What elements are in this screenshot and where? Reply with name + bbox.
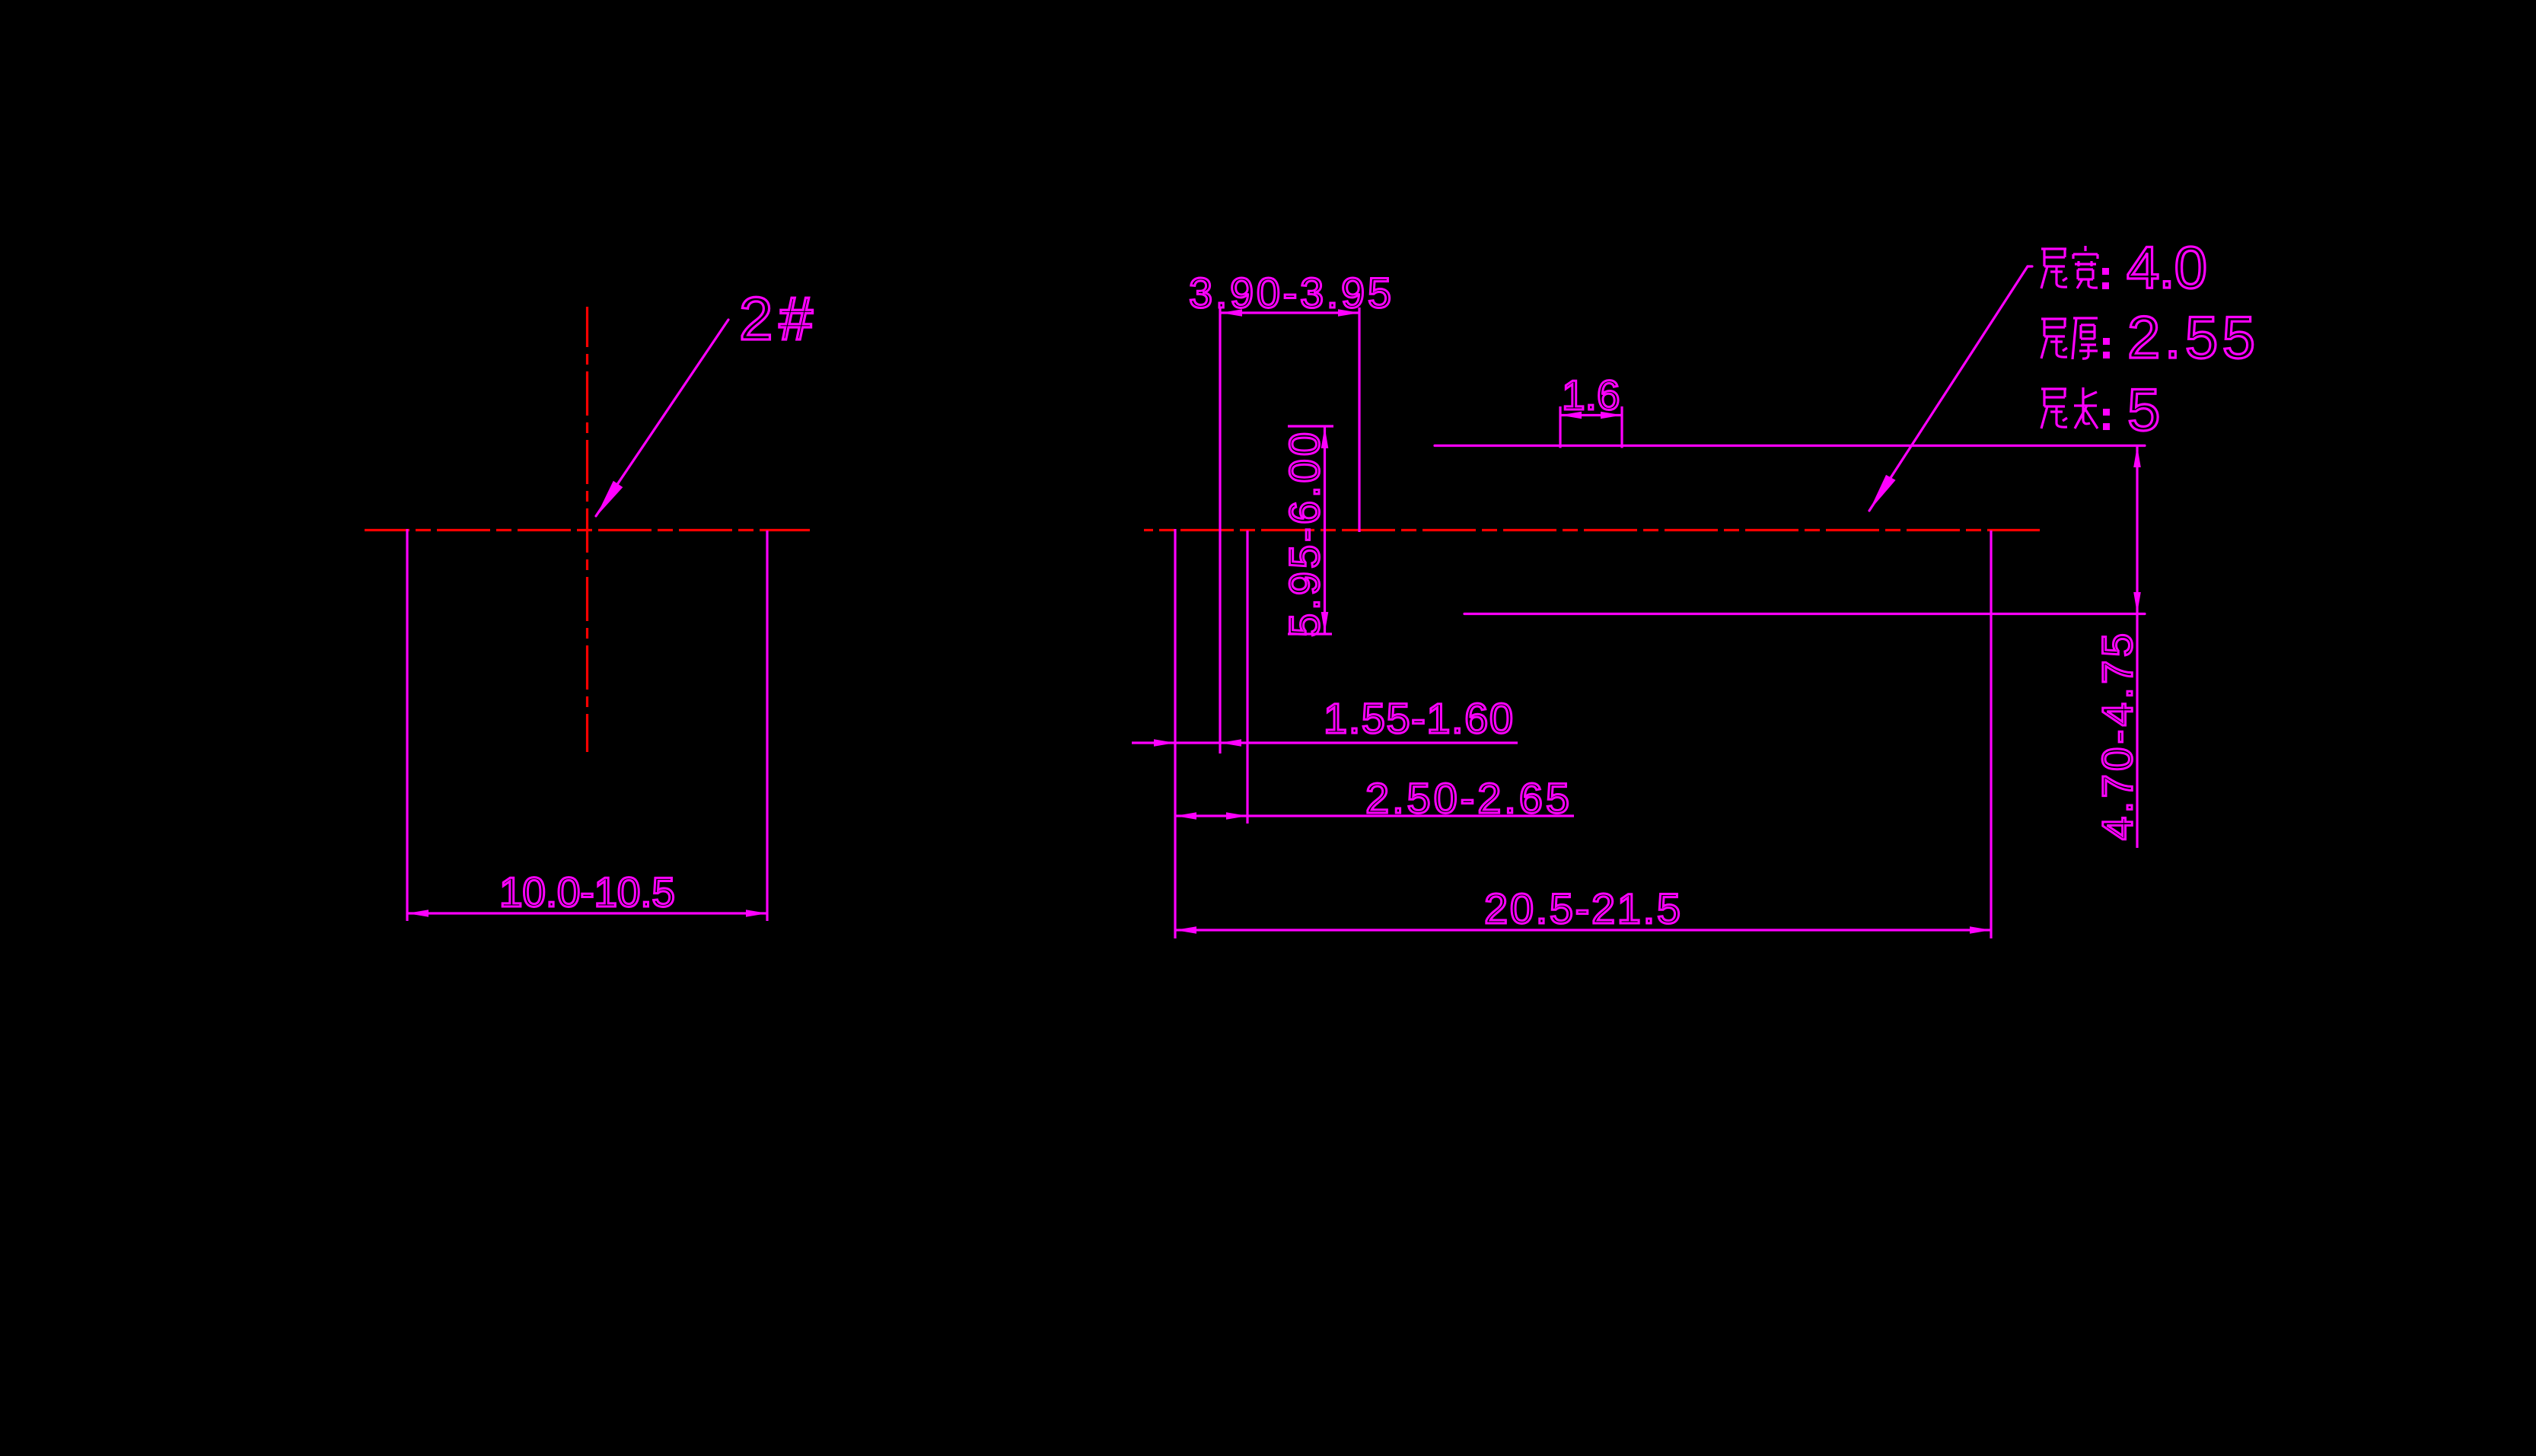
svg-text:2.55: 2.55 <box>2127 304 2255 371</box>
arrowhead right (1.6) <box>1601 412 1622 419</box>
arrowhead left (20.5-21.5) <box>1175 926 1196 934</box>
body line top <box>1435 444 2145 447</box>
arrowhead outside-left at 1603 (1.55-1.60) <box>1220 739 1241 747</box>
svg-text:3.90-3.95: 3.90-3.95 <box>1189 269 1391 317</box>
extension line left (10.0-10.5) <box>406 529 408 921</box>
char 厚 (row2) <box>2072 318 2098 359</box>
svg-text:4.70-4.75: 4.70-4.75 <box>2093 633 2141 840</box>
extension line E x=1786 <box>1358 307 1360 532</box>
dimension line 2.50-2.65 <box>1175 814 1574 817</box>
colon (row2) <box>2103 338 2110 345</box>
centerline vertical (red) <box>586 307 588 752</box>
leader line (tail notes) <box>1869 266 2032 511</box>
extension line B x=1603 <box>1219 307 1221 753</box>
char 尾 (row1) <box>2041 249 2067 288</box>
dimension line 3.90-3.95 <box>1221 311 1359 314</box>
tick bottom (5.95-6.00) <box>1288 632 1332 635</box>
arrowhead left (1.6) <box>1560 412 1582 419</box>
arrowhead right (20.5-21.5) <box>1970 926 1991 934</box>
char 尾 (row3) <box>2041 389 2067 429</box>
svg-text:10.0-10.5: 10.0-10.5 <box>499 868 675 916</box>
char 尾 (row2) <box>2041 319 2067 358</box>
svg-text:4.0: 4.0 <box>2127 234 2207 301</box>
svg-text:20.5-21.5: 20.5-21.5 <box>1484 884 1681 932</box>
dimension line 4.70-4.75 (vertical) <box>2136 446 2138 849</box>
colon (row1) <box>2102 268 2109 275</box>
arrowhead down (4.70-4.75) <box>2133 592 2141 613</box>
svg-text:2.50-2.65: 2.50-2.65 <box>1365 774 1569 822</box>
tick right (1.6) <box>1620 406 1623 448</box>
dimension line 5.95-6.00 (vertical) <box>1324 427 1326 633</box>
extension line C x=1639 <box>1246 530 1248 824</box>
dimension line 20.5-21.5 <box>1175 929 1991 931</box>
arrowhead down (5.95-6.00) <box>1321 612 1329 633</box>
centerline horizontal (red) <box>1144 529 2040 531</box>
extension line A x=1544 <box>1174 529 1176 938</box>
dimension line 10.0-10.5 <box>407 912 767 914</box>
leader arrowhead (tail notes) <box>1869 475 1896 511</box>
char 长 (row3) <box>2074 387 2098 429</box>
arrowhead right (10.0-10.5) <box>746 910 767 917</box>
arrowhead right (3.90-3.95) <box>1338 309 1359 317</box>
centerline horizontal (red) <box>365 529 810 531</box>
arrowhead outside-right at 1544 (1.55-1.60) <box>1154 739 1175 747</box>
tick top (5.95-6.00) <box>1288 425 1333 427</box>
body line bottom <box>1464 613 2145 615</box>
tick left (1.6) <box>1559 406 1561 448</box>
leader line to 2# <box>596 320 728 516</box>
arrowhead left (10.0-10.5) <box>407 910 429 917</box>
dimension line 1.55-1.60 <box>1132 741 1518 744</box>
svg-text:1.55-1.60: 1.55-1.60 <box>1324 694 1513 742</box>
extension line right (10.0-10.5) <box>766 530 768 921</box>
svg-text:5: 5 <box>2127 376 2160 443</box>
arrowhead right (2.50-2.65) <box>1226 812 1247 820</box>
char 宽 (row1) <box>2073 246 2098 288</box>
svg-text:5.95-6.00: 5.95-6.00 <box>1280 432 1328 637</box>
arrowhead left (2.50-2.65) <box>1175 812 1196 820</box>
leader arrowhead <box>596 481 623 517</box>
dimension line 1.6 <box>1560 414 1622 416</box>
arrowhead up (5.95-6.00) <box>1321 427 1329 448</box>
arrowhead up (4.70-4.75) <box>2133 446 2141 467</box>
svg-text:1.6: 1.6 <box>1562 371 1620 419</box>
arrowhead left (3.90-3.95) <box>1221 309 1242 317</box>
colon (row3) <box>2103 409 2110 416</box>
extension line D x=2616 <box>1990 530 1992 938</box>
